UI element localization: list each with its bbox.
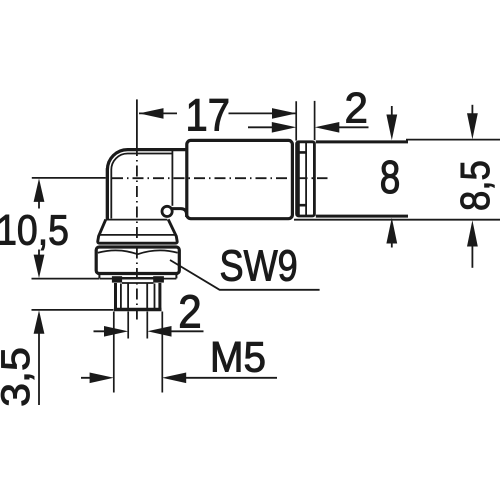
release ring outline [297,142,315,216]
stud bore lines [128,284,147,309]
horizontal centerline [112,177,328,179]
nut lower flange [99,275,176,279]
dim 10,5 line [38,200,40,256]
collar mid line [100,234,175,236]
seal washer [112,276,122,282]
release ring bridges [297,152,307,205]
stud thread minor lines [121,284,155,309]
cartridge bottom extension line [294,219,500,221]
bump on elbow [162,206,172,216]
tube top extension line [406,139,500,141]
svg-text:M5: M5 [210,333,266,381]
dim M5 line [81,377,277,379]
dim 8,5 text [453,160,498,211]
svg-text:3,5: 3,5 [0,347,38,407]
dim 3,5 text [0,347,38,407]
left centerline extension [32,177,106,179]
collar flare sides [98,219,177,243]
elbow body inner wall line [111,154,172,219]
release ring inner lines [299,143,306,216]
threaded stud M5 outline [116,283,160,308]
dim 3,5 extension [32,309,114,311]
svg-text:17: 17 [186,90,230,141]
dim 3,5 line [38,332,40,405]
nut SW9 outline [96,247,179,274]
stud extension lines below [114,312,163,393]
cartridge body [187,140,293,218]
dim 17 line [139,112,296,114]
svg-text:8,5: 8,5 [453,160,498,211]
vertical centerline [136,99,138,145]
dim 2 line [248,126,369,128]
dim 8 arrows [391,106,393,116]
dim bore 2 line [94,330,204,332]
svg-text:SW9: SW9 [219,243,297,291]
dim 2 extension lines [296,101,314,141]
svg-text:8: 8 [380,151,401,203]
elbow left edge lower [106,168,109,221]
collar shoulder line [109,219,168,221]
dim 8,5 arrows [471,105,473,114]
dim 10,5 lower extension [32,278,100,280]
svg-text:2: 2 [178,287,201,338]
svg-text:2: 2 [344,84,367,131]
SW9 leader [170,260,320,290]
elbow arm bottom edge [171,209,187,217]
nut facet arcs [98,250,178,254]
svg-text:10,5: 10,5 [0,206,69,254]
tube outline [316,142,408,216]
elbow body outer contour [107,150,188,221]
elbow joint line [171,151,173,206]
